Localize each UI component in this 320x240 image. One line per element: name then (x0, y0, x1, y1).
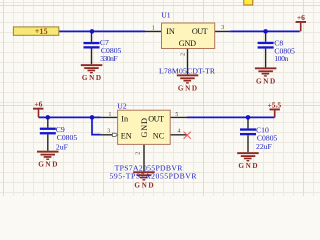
svg-text:GND: GND (38, 161, 57, 169)
svg-text:5: 5 (175, 112, 178, 118)
svg-text:22uF: 22uF (256, 142, 272, 151)
svg-text:IN: IN (166, 27, 175, 36)
svg-text:GND: GND (256, 77, 275, 85)
svg-text:2: 2 (135, 152, 141, 155)
svg-text:NC: NC (153, 131, 165, 140)
svg-text:GND: GND (134, 181, 153, 189)
svg-text:+6: +6 (297, 13, 305, 22)
svg-text:GND: GND (238, 162, 257, 170)
svg-text:3: 3 (221, 25, 224, 31)
svg-text:+15: +15 (35, 27, 48, 36)
svg-text:2: 2 (180, 53, 186, 56)
svg-text:595-TPS7A2055PDBVR: 595-TPS7A2055PDBVR (110, 172, 198, 181)
svg-text:100n: 100n (274, 54, 288, 63)
svg-text:EN: EN (121, 131, 132, 140)
svg-text:GND: GND (179, 39, 196, 48)
svg-text:OUT: OUT (148, 114, 164, 123)
svg-text:+6: +6 (34, 100, 42, 109)
svg-text:3: 3 (107, 129, 110, 135)
svg-text:C0805: C0805 (257, 133, 278, 142)
svg-text:In: In (121, 115, 128, 124)
svg-text:330nF: 330nF (100, 54, 117, 63)
svg-text:2uF: 2uF (56, 143, 68, 152)
svg-text:U1: U1 (161, 11, 171, 20)
svg-text:1: 1 (108, 112, 111, 118)
svg-text:1: 1 (152, 25, 155, 31)
svg-text:L78M05CDT-TR: L78M05CDT-TR (159, 67, 216, 76)
svg-text:U2: U2 (117, 102, 127, 111)
svg-text:OUT: OUT (192, 27, 208, 36)
svg-text:4: 4 (178, 129, 181, 135)
svg-text:+5.5: +5.5 (267, 101, 281, 110)
svg-text:GND: GND (178, 84, 197, 92)
svg-text:GND: GND (140, 118, 149, 137)
svg-text:C0805: C0805 (57, 133, 78, 142)
svg-text:GND: GND (82, 74, 101, 82)
